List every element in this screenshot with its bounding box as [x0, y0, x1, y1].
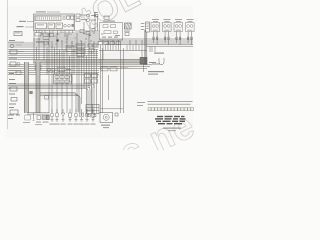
page edge line [7, 0, 9, 129]
mesh box 2 [66, 46, 74, 51]
small box right of pump [115, 113, 118, 116]
bottom component 5 [73, 109, 78, 125]
connector block C [86, 105, 99, 117]
right mid wires [150, 46, 155, 52]
junction block A [54, 74, 73, 84]
scan blotches [27, 22, 181, 101]
left col bottom text [8, 115, 20, 120]
harness band vertical 1 [24, 62, 28, 113]
left col box 4 [11, 98, 17, 102]
scan tint overlay [6, 6, 193, 138]
module connector row [98, 42, 121, 45]
left col item 1 [8, 40, 24, 42]
bus mid left [8, 43, 99, 47]
CDI module [100, 21, 123, 40]
bus group lower [8, 50, 98, 58]
band feeder line [8, 59, 33, 61]
bottom component 8 [90, 109, 95, 125]
mesh lower box [58, 67, 65, 71]
bottom comp flasher [23, 113, 35, 123]
left col text 3 [9, 79, 16, 84]
legend connector strip [148, 108, 194, 111]
title block dark text [155, 116, 186, 125]
mesh lower smudges [66, 66, 77, 70]
mesh junction blob [56, 39, 59, 42]
bottom left bus [27, 113, 50, 115]
bottom component 6 [79, 109, 84, 125]
ignition coil 2 [163, 19, 172, 44]
coil bus right [99, 43, 193, 51]
junction boxes premodule [80, 29, 95, 37]
connector left box [14, 32, 22, 36]
vertical wires left mesh [34, 31, 97, 114]
module top mini box [104, 16, 109, 19]
bottom component 4 [67, 109, 72, 125]
harness band horizontal [33, 60, 147, 63]
bus lowest [8, 70, 99, 74]
vertical wires right mesh [103, 40, 142, 60]
left col box 5 [10, 110, 18, 114]
left col text 1 [9, 58, 17, 59]
mesh box stack [76, 44, 85, 57]
ignition coil 1 [151, 19, 160, 44]
wire bundle mid 2 [40, 93, 80, 113]
coil feed box [146, 22, 150, 32]
bus tick marks [43, 31, 93, 47]
band connector [29, 91, 32, 94]
main bus full width [33, 39, 193, 41]
wire bundle mid [8, 84, 94, 112]
mesh small box 1 [44, 42, 49, 45]
bottom component 7 [84, 109, 89, 125]
lamp symbols [87, 14, 97, 22]
relay hatched box [124, 23, 131, 36]
mesh lower comp 1 [35, 66, 41, 70]
page background [0, 0, 195, 150]
harness end connector [140, 57, 147, 64]
mesh lower circles [47, 68, 55, 71]
top verticals [84, 12, 98, 31]
bottom component 3 [60, 109, 65, 125]
under-cluster boxes [35, 33, 54, 43]
fuel pump unit [100, 113, 113, 129]
bottom relay cluster [35, 115, 49, 125]
small relay top [94, 12, 98, 17]
cluster leader left [17, 21, 34, 27]
left col lamp [10, 44, 22, 48]
right mid text 2 [148, 71, 164, 75]
ignition coil 4 [186, 19, 195, 44]
mesh small rects [88, 44, 97, 52]
bus below band [8, 64, 160, 73]
mesh junction dots [38, 38, 94, 54]
upper wire bus left [40, 31, 100, 37]
left col box 2 [10, 62, 20, 66]
fuel pump wires [101, 45, 124, 113]
bottom component 2 [54, 109, 59, 125]
note paragraph [148, 101, 193, 105]
ignition coil 3 [174, 19, 183, 44]
right fork symbol [149, 58, 164, 65]
left col text 2 [9, 70, 21, 74]
left col box 3 [10, 87, 17, 91]
bottom component 1 [49, 109, 54, 125]
junction block B [85, 74, 98, 84]
left col text 5 [9, 104, 16, 109]
left col text 4 [9, 94, 15, 95]
right vertical bundle [145, 30, 147, 65]
left col box 1 [10, 50, 24, 54]
lower right note [137, 102, 145, 106]
instrument cluster box [34, 14, 75, 31]
indicator switch pair [76, 14, 87, 22]
title subtext [163, 128, 181, 131]
mesh stub wires [37, 31, 73, 38]
cluster label above [36, 11, 60, 12]
watermark letters tOL [74, 0, 146, 38]
right mid label [154, 53, 164, 54]
harness band vertical 2 [36, 62, 40, 113]
watermark letters c ne [113, 104, 201, 174]
inline box on drop wire [45, 96, 49, 100]
right connectors below band [101, 67, 128, 71]
coil feed labels [141, 23, 145, 30]
